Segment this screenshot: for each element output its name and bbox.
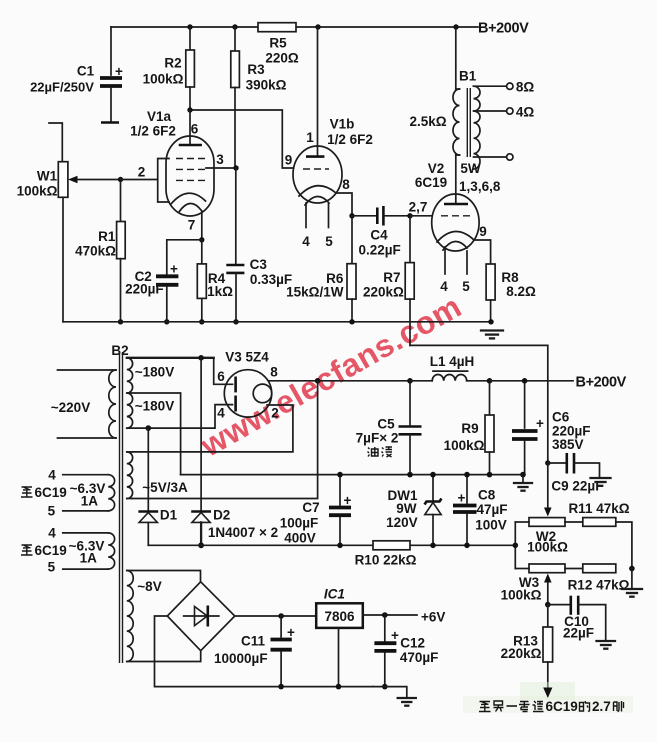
- ground symbol C10: [597, 641, 616, 649]
- svg-text:6C19: 6C19: [35, 543, 67, 558]
- triode V1b envelope: [293, 117, 373, 204]
- node DW1 top: [430, 472, 436, 478]
- capacitor C9: [548, 453, 604, 494]
- svg-text:5: 5: [462, 279, 470, 294]
- capacitor C11: [214, 616, 295, 687]
- ground symbol main rail: [514, 475, 532, 491]
- V1a cathode pin 7 wire: [188, 211, 202, 240]
- svg-text:~8V: ~8V: [137, 579, 161, 594]
- wire feedback R7 to W2 wiper: [410, 345, 548, 463]
- svg-text:100V: 100V: [475, 518, 507, 533]
- svg-text:B1: B1: [459, 69, 477, 84]
- svg-text:100kΩ: 100kΩ: [143, 72, 184, 87]
- potentiometer W2: [515, 518, 583, 555]
- svg-text:C6: C6: [552, 410, 570, 425]
- node top rail / R2: [187, 24, 192, 29]
- svg-text:2: 2: [138, 165, 146, 180]
- B2 5V winding coil: [127, 452, 133, 499]
- svg-text:+6V: +6V: [421, 610, 445, 625]
- node bias rail / W2-W3 link: [513, 543, 519, 549]
- svg-text:C1: C1: [77, 64, 95, 79]
- capacitor C7: [280, 475, 352, 546]
- svg-text:R11 47kΩ: R11 47kΩ: [568, 501, 629, 516]
- transformer B1 secondary coil: [474, 86, 481, 169]
- svg-text:1A: 1A: [80, 551, 98, 566]
- wire wiper to V1a grid: [121, 179, 158, 181]
- resistor R1: [75, 180, 125, 322]
- transformer B1 core: [467, 88, 470, 157]
- node C7 bottom: [337, 543, 343, 549]
- svg-text:www.elecfans.com: www.elecfans.com: [194, 288, 468, 464]
- svg-text:+: +: [344, 493, 352, 508]
- 5V winding bottom lead to riser: [132, 381, 318, 499]
- V3 anode bar pin 4: [217, 396, 235, 421]
- V3 pin 8 output wire: [269, 365, 410, 381]
- capacitor C5: [356, 381, 422, 475]
- transformer B1 primary wire from rail: [455, 27, 457, 89]
- node raw B+ / 5V riser: [315, 378, 321, 384]
- node top rail / V1b plate branch: [315, 24, 320, 29]
- svg-text:5: 5: [48, 504, 56, 519]
- svg-text:22µF/250V: 22µF/250V: [30, 80, 94, 95]
- svg-text:10000µF: 10000µF: [214, 651, 268, 666]
- wire raw B+ rail with center tap rail: [181, 474, 523, 476]
- svg-text:~220V: ~220V: [51, 400, 90, 415]
- resistor R8: [486, 264, 536, 322]
- node C6 top: [522, 378, 528, 384]
- svg-text:V2: V2: [428, 161, 445, 176]
- IC1 ground pin: [338, 628, 340, 687]
- svg-text:6: 6: [217, 369, 225, 384]
- node C3 ground: [233, 319, 238, 324]
- svg-text:220Ω: 220Ω: [265, 51, 299, 66]
- node W3 wiper / C10 / R13: [545, 602, 551, 608]
- node C7 top: [337, 472, 343, 478]
- B1 secondary tap common: [474, 154, 514, 160]
- svg-text:R10 22kΩ: R10 22kΩ: [355, 553, 417, 568]
- wire W2 left to W3 left: [514, 522, 516, 569]
- capacitor C1: [30, 27, 123, 123]
- capacitor C4: [352, 206, 410, 258]
- svg-text:+: +: [115, 64, 123, 79]
- resistor R9: [444, 381, 494, 475]
- svg-text:4: 4: [48, 526, 56, 541]
- resistor R7: [363, 216, 414, 346]
- HV bottom lead to V3 pin4: [127, 405, 233, 429]
- svg-text:100kΩ: 100kΩ: [501, 588, 542, 603]
- V1a grid dashes: [176, 159, 205, 181]
- svg-text:C11: C11: [241, 634, 266, 649]
- svg-text:9W: 9W: [396, 501, 417, 516]
- svg-text:R12 47kΩ: R12 47kΩ: [568, 578, 630, 593]
- svg-text:4: 4: [302, 234, 310, 249]
- capacitor C2: [125, 240, 202, 322]
- V1b cathode arcs: [299, 186, 336, 205]
- wire bias rail lower: [148, 544, 515, 546]
- rectifier V3 envelope: [224, 350, 271, 418]
- W1 wiper arrow wire: [68, 176, 121, 184]
- svg-text:22µF: 22µF: [563, 626, 594, 641]
- ground symbol below V2 cathode: [481, 331, 503, 339]
- svg-text:470kΩ: 470kΩ: [75, 244, 116, 259]
- svg-text:4: 4: [48, 468, 56, 483]
- svg-text:D1: D1: [160, 508, 178, 523]
- svg-text:IC1: IC1: [324, 587, 345, 602]
- node R4 ground: [199, 319, 204, 324]
- node R6 ground: [349, 319, 354, 324]
- svg-text:V3 5Z4: V3 5Z4: [225, 350, 269, 365]
- V1a plate wire pin 6: [179, 110, 202, 145]
- label to other channel 6C19 pins 2.7 (hanzi): [479, 699, 624, 714]
- svg-text:2.5kΩ: 2.5kΩ: [409, 114, 446, 129]
- node cathode V1a: [199, 237, 204, 242]
- svg-text:R8: R8: [501, 270, 519, 285]
- svg-text:C3: C3: [250, 257, 268, 272]
- arrow to other channel grid: [543, 688, 552, 699]
- svg-text:3: 3: [216, 152, 224, 167]
- svg-text:6C19: 6C19: [546, 699, 578, 714]
- svg-text:+: +: [170, 262, 178, 277]
- wire low rail end: [373, 687, 407, 697]
- wire input ground rail: [63, 321, 491, 323]
- node C11 top: [278, 613, 284, 619]
- node R9 bottom: [487, 472, 493, 478]
- svg-text:1/2 6F2: 1/2 6F2: [130, 124, 176, 139]
- resistor R3: [231, 27, 287, 168]
- svg-text:B+200V: B+200V: [478, 21, 529, 37]
- svg-text:1: 1: [306, 130, 314, 145]
- svg-text:R7: R7: [383, 270, 400, 285]
- node C4 / R7 / V2 grid: [407, 213, 412, 218]
- V2 cathode arcs: [437, 231, 474, 250]
- svg-text:100µF: 100µF: [280, 516, 319, 531]
- W3 wiper arrow: [544, 574, 552, 605]
- labels 6.3V no.2: [21, 526, 104, 575]
- svg-text:L1 4µH: L1 4µH: [430, 354, 475, 369]
- svg-text:~180V: ~180V: [135, 365, 174, 380]
- node HV top / D2 branch: [198, 355, 204, 361]
- inductor L1: [410, 371, 490, 381]
- wire to V2 grid: [410, 215, 432, 217]
- node cathode ground: [488, 319, 493, 324]
- svg-text:220µF: 220µF: [125, 282, 164, 297]
- capacitor C8: [453, 475, 508, 546]
- svg-text:R5: R5: [269, 36, 287, 51]
- svg-text:9: 9: [479, 224, 487, 239]
- node V1b cathode / C4 / R6: [349, 213, 354, 218]
- V2 grid dashes: [441, 215, 470, 217]
- svg-text:1N4007 × 2: 1N4007 × 2: [208, 525, 278, 540]
- resistor R5: [258, 23, 299, 66]
- svg-text:+: +: [287, 625, 295, 640]
- svg-text:8: 8: [270, 365, 278, 380]
- zener DW1: [386, 475, 441, 546]
- svg-text:9: 9: [285, 153, 293, 168]
- svg-text:R2: R2: [164, 56, 181, 71]
- V3 anode bar pin 6: [217, 369, 235, 392]
- node C8 top: [464, 472, 470, 478]
- svg-text:C8: C8: [478, 488, 496, 503]
- pentode V2 envelope: [415, 161, 501, 251]
- capacitor C10: [548, 596, 606, 641]
- svg-text:1/2 6F2: 1/2 6F2: [327, 132, 373, 147]
- svg-text:2: 2: [271, 406, 279, 421]
- resistor R13: [501, 605, 553, 688]
- svg-text:1A: 1A: [81, 494, 99, 509]
- svg-text:~180V: ~180V: [135, 399, 174, 414]
- resistor R2: [143, 27, 195, 110]
- node C12 top: [382, 612, 388, 618]
- V1a cathode arcs: [171, 193, 206, 212]
- B2 8V winding: [127, 571, 201, 662]
- node HV bottom / D1 branch: [146, 425, 152, 431]
- triode V1a envelope: [130, 109, 214, 216]
- node feedback / C9: [545, 460, 550, 465]
- node C12 bottom: [382, 684, 388, 690]
- node D2 bottom rail: [198, 542, 204, 548]
- svg-text:47µF: 47µF: [476, 502, 507, 517]
- svg-text:R1: R1: [98, 229, 116, 244]
- svg-text:5: 5: [48, 560, 56, 575]
- svg-text:5W: 5W: [460, 161, 481, 176]
- svg-text:V1b: V1b: [330, 117, 355, 132]
- V2 heater stub pin 5: [462, 251, 470, 294]
- svg-text:390kΩ: 390kΩ: [246, 78, 287, 93]
- scanner smear highlight: [463, 682, 633, 713]
- svg-text:220kΩ: 220kΩ: [363, 285, 404, 300]
- V2 cathode pin 9 wire: [474, 224, 491, 264]
- node C8 bottom: [464, 543, 470, 549]
- B2 primary coil ~220V: [58, 370, 117, 438]
- transformer B1 primary coil: [453, 89, 460, 155]
- ground symbol C9: [591, 478, 611, 486]
- node R1 ground: [118, 319, 123, 324]
- svg-text:100kΩ: 100kΩ: [527, 540, 568, 555]
- resistor R12: [568, 564, 630, 593]
- svg-text:W1: W1: [37, 169, 58, 184]
- potentiometer W3: [501, 564, 583, 603]
- node C5 bottom: [407, 472, 413, 478]
- node DW1 bottom: [430, 543, 436, 549]
- svg-text:1kΩ: 1kΩ: [207, 284, 233, 299]
- svg-text:2.7: 2.7: [592, 699, 611, 714]
- node pin3 / R3 / C3: [233, 165, 238, 170]
- node R12 right: [629, 566, 635, 572]
- svg-text:220kΩ: 220kΩ: [501, 646, 542, 661]
- B1 secondary tap 4 ohm: [474, 105, 535, 120]
- B2 heater winding 6.3V no.2: [63, 533, 115, 569]
- B2 heater winding 6.3V no.1: [63, 475, 115, 511]
- HV center tap lead: [127, 393, 181, 475]
- svg-text:4: 4: [217, 406, 225, 421]
- node C11 bottom: [278, 684, 284, 690]
- V1b cathode pin 8 wire: [336, 177, 352, 216]
- B1 secondary tap 8 ohm: [474, 80, 535, 95]
- diode D2: [191, 358, 230, 546]
- svg-text:4Ω: 4Ω: [516, 105, 535, 120]
- HV top lead to V3 pin6: [127, 358, 233, 385]
- node C6 bottom / ground: [520, 472, 526, 478]
- svg-text:7: 7: [188, 218, 196, 233]
- ground symbol R11/R12: [622, 569, 642, 597]
- B2 HV secondary coil 180V x2: [127, 358, 133, 428]
- resistor R6: [286, 216, 356, 322]
- wire +6V output: [363, 610, 446, 625]
- V2 plate wire: [444, 155, 468, 204]
- svg-text:+: +: [536, 416, 544, 431]
- V1b grid dashes: [303, 168, 329, 170]
- svg-text:C7: C7: [302, 500, 319, 515]
- bridge positive lead: [235, 615, 316, 617]
- svg-text:15kΩ/1W: 15kΩ/1W: [286, 285, 344, 300]
- svg-text:4: 4: [440, 279, 448, 294]
- svg-text:+: +: [458, 491, 466, 506]
- V1b plate wire pin 1: [306, 27, 324, 157]
- V1b heater stub pin 5: [325, 204, 333, 249]
- resistor R10: [355, 541, 417, 568]
- bridge negative lead: [155, 616, 374, 687]
- V1a grid bracket pin 2: [138, 159, 169, 203]
- svg-text:6C19: 6C19: [415, 175, 447, 190]
- svg-text:100kΩ: 100kΩ: [17, 184, 58, 199]
- potentiometer W1: [17, 123, 68, 322]
- capacitor C3: [226, 168, 292, 322]
- svg-text:385V: 385V: [552, 437, 584, 452]
- svg-text:8: 8: [342, 177, 350, 192]
- bridge rectifier: [167, 582, 235, 651]
- V2 heater stub pin 4: [440, 247, 448, 294]
- svg-text:V1a: V1a: [147, 109, 172, 124]
- svg-text:D2: D2: [213, 508, 230, 523]
- capacitor C12: [374, 615, 438, 687]
- svg-text:120V: 120V: [386, 515, 418, 530]
- transformer B2 core: [120, 352, 123, 663]
- svg-text:6: 6: [191, 122, 199, 137]
- wire B+ rail to label: [490, 380, 574, 382]
- node top rail / B1 primary: [453, 24, 458, 29]
- node C5 top / L1 left: [407, 378, 413, 384]
- svg-text:+: +: [391, 628, 399, 643]
- svg-text:C4: C4: [370, 228, 388, 243]
- V1a pin 3 screen wire: [206, 152, 236, 168]
- labels 6.3V no.1: [21, 468, 105, 519]
- V1b heater stub pin 4: [302, 203, 310, 249]
- node IC1 ground: [336, 684, 342, 690]
- svg-text:2,7: 2,7: [409, 200, 428, 215]
- wire feedback down to W2 wiper: [544, 463, 552, 517]
- ground symbol 6V supply: [398, 698, 416, 706]
- svg-text:1,3,6,8: 1,3,6,8: [459, 179, 501, 194]
- node top rail / R3: [232, 24, 237, 29]
- svg-text:100kΩ: 100kΩ: [444, 438, 485, 453]
- node C2 ground: [164, 319, 169, 324]
- capacitor C6: [512, 381, 591, 475]
- node W1 wiper / R1: [118, 177, 123, 182]
- diode D1: [138, 428, 177, 545]
- resistor R11: [568, 501, 631, 569]
- svg-text:7806: 7806: [324, 609, 355, 624]
- svg-text:7µF× 2: 7µF× 2: [356, 431, 399, 446]
- svg-text:B+200V: B+200V: [576, 375, 627, 391]
- svg-text:R3: R3: [247, 62, 265, 77]
- svg-text:R9: R9: [461, 421, 478, 436]
- wire R2 plate to V1b grid: [190, 110, 294, 168]
- watermark www.elecfans.com: [194, 288, 468, 464]
- svg-text:C12: C12: [400, 636, 425, 651]
- node R2 bottom: [187, 107, 192, 112]
- svg-text:8.2Ω: 8.2Ω: [506, 284, 536, 299]
- svg-text:470µF: 470µF: [400, 650, 439, 665]
- svg-text:400V: 400V: [284, 531, 316, 546]
- label oil-immersed (hanzi): [368, 447, 393, 457]
- V3 pin 2 wire to 5V winding: [132, 405, 293, 452]
- wire B+ top rail: [111, 26, 478, 28]
- resistor R4: [197, 240, 233, 322]
- svg-text:8Ω: 8Ω: [516, 80, 535, 95]
- svg-text:C5: C5: [377, 417, 395, 432]
- svg-text:C9 22µF: C9 22µF: [551, 479, 603, 494]
- regulator IC1 7806: [316, 587, 363, 628]
- svg-text:0.22µF: 0.22µF: [358, 243, 400, 258]
- svg-text:5: 5: [325, 234, 333, 249]
- svg-text:6C19: 6C19: [35, 485, 67, 500]
- node R9 top: [487, 378, 493, 384]
